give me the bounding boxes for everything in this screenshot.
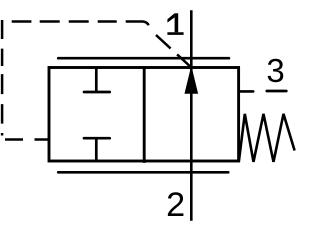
blocked port symbol bottom T (left cell) [95, 138, 98, 162]
svg-text:2: 2 [166, 186, 185, 224]
blocked port symbol top T (left cell) [95, 67, 98, 93]
valve body outline [49, 68, 239, 162]
valve position divider [143, 66, 146, 163]
wire: pilot line vertical dashed segment (left edge) [1, 20, 4, 136]
svg-text:3: 3 [266, 52, 284, 89]
wire: port 3 stub [239, 90, 253, 93]
wire: pilot line bottom dashed segment to valve body [5, 138, 49, 141]
spring (return spring, right side) [239, 114, 295, 162]
wire: upper working line [58, 57, 229, 60]
wire: port 1-2 vertical flow line [190, 10, 193, 220]
flow arrow head (right cell, pointing up) [185, 68, 197, 93]
port 3 underline [267, 90, 287, 93]
port label 1 (custom glyph with foot serif) [167, 13, 183, 35]
wire: pilot line top dashed segment with corner bend [12, 22, 149, 26]
wire: pilot line diagonal dashed segment to arrow tip [156, 35, 191, 68]
wire: lower working line [58, 171, 228, 174]
